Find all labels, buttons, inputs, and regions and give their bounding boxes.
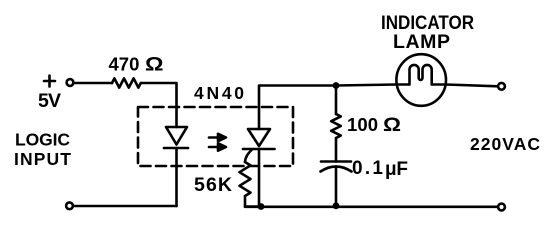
wire: 100 ohm to capacitor (335, 138, 338, 162)
svg-text:5V: 5V (38, 90, 61, 112)
svg-text:100: 100 (347, 114, 378, 135)
SCR (opto detector) (243, 129, 275, 162)
resistor 470 ohm (112, 78, 141, 87)
svg-text:0.1: 0.1 (352, 158, 383, 179)
wire: SCR cathode down (258, 149, 261, 207)
terminal: 220VAC hot (498, 83, 505, 90)
wire: capacitor to bottom rail (335, 167, 338, 206)
wire: lamp to AC terminal (446, 85, 498, 87)
wire: bottom right rail (245, 206, 498, 209)
svg-text:Ω: Ω (383, 115, 401, 136)
resistor 56K (240, 162, 251, 196)
optocoupler 4N40 dashed box (138, 107, 293, 166)
svg-text:220VAC: 220VAC (470, 134, 540, 154)
svg-text:LAMP: LAMP (393, 31, 450, 53)
wire: 5V terminal to R 470 (74, 82, 113, 85)
gate lead (245, 150, 252, 163)
svg-text:INPUT: INPUT (14, 149, 71, 169)
svg-text:Ω: Ω (145, 55, 164, 76)
svg-text:μF: μF (385, 159, 408, 180)
svg-text:4N40: 4N40 (194, 83, 244, 103)
svg-text:56K: 56K (194, 174, 232, 196)
node: SCR cathode / bottom rail junction (258, 203, 265, 210)
node: top rail junction (333, 82, 340, 89)
svg-text:470: 470 (109, 54, 140, 75)
wire: node to lamp (336, 85, 397, 86)
terminal: 220VAC return (498, 204, 505, 211)
label INDICATOR LAMP (381, 12, 474, 53)
terminal: +5V input (67, 79, 74, 86)
wire: SCR anode up and top rail to node (259, 86, 336, 130)
terminal: logic input return (66, 202, 73, 209)
wire: LED cathode down (175, 148, 178, 206)
wire: bottom left rail (74, 205, 177, 208)
LED (opto emitter) (164, 127, 188, 148)
resistor 100 ohm (331, 114, 341, 138)
label LOGIC INPUT (14, 130, 71, 170)
label 0.1uF (352, 158, 408, 180)
resistor 100 ohm lead (335, 86, 338, 115)
wire: 56K bottom to cathode node (245, 196, 259, 207)
wire: R470 to LED anode (corner) (141, 83, 177, 127)
indicator lamp (396, 54, 446, 106)
light arrows (opto coupling) (209, 134, 226, 151)
capacitor 0.1uF (321, 162, 352, 172)
svg-text:LOGIC: LOGIC (15, 130, 70, 150)
plus sign (+5V polarity) (44, 76, 55, 87)
node: capacitor / bottom rail junction (333, 202, 340, 209)
